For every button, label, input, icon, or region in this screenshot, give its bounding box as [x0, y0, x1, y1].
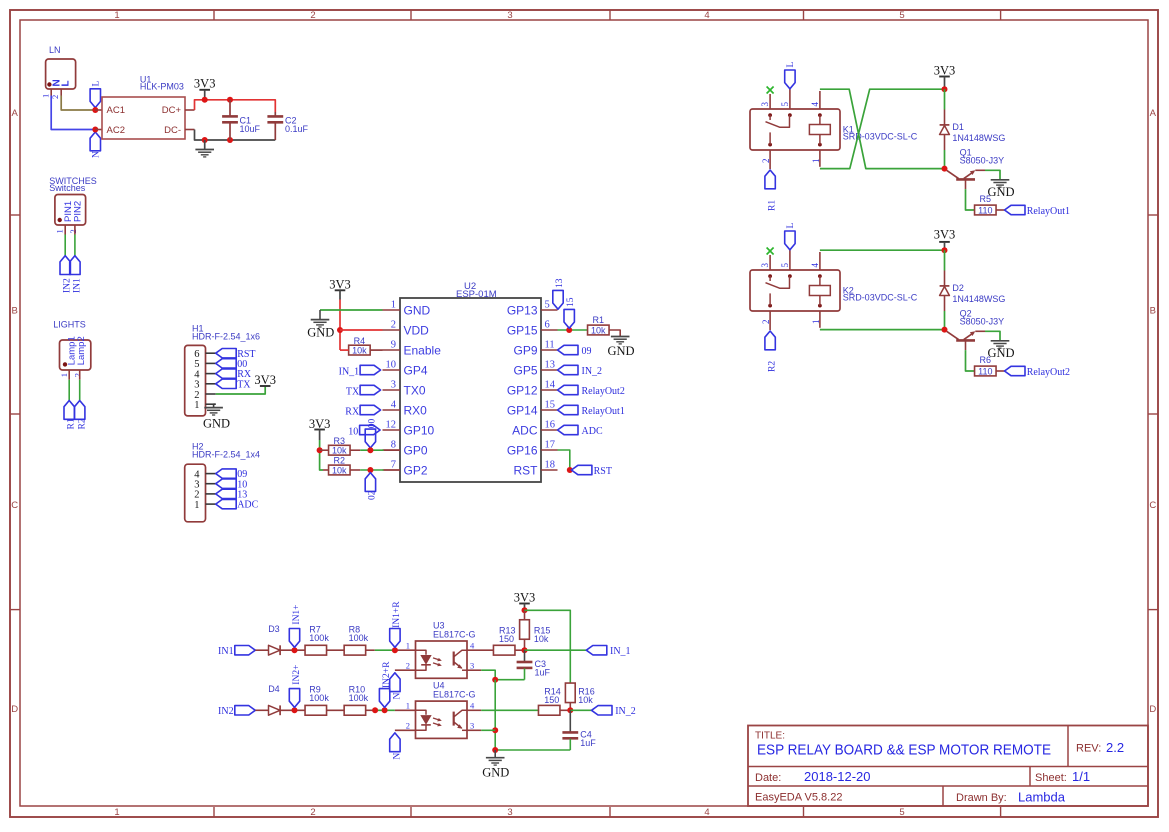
ground GND (Q2) — [987, 341, 1014, 360]
transistor Q2 S8050-J3Y — [947, 308, 1004, 350]
wire U2 pin 6 (GP15) stub — [541, 329, 558, 331]
junction IN2+R b — [382, 707, 388, 713]
wire GP15 — [558, 329, 588, 331]
net flag R2 (K2 pin2) — [765, 331, 778, 372]
svg-text:IN2+R: IN2+R — [382, 661, 392, 688]
resistor R13 150 — [493, 626, 515, 656]
wire H1 pin 2 stub — [206, 393, 216, 395]
wire K2 pin1 stub — [819, 311, 821, 328]
title block — [748, 726, 1148, 807]
svg-text:Switches: Switches — [49, 183, 86, 193]
wire N (blue) LN pin1 to AC2 — [51, 96, 95, 130]
wire U2 pin 12 (GP10) stub — [383, 429, 401, 431]
wire R14 to junction — [560, 709, 570, 711]
wire AC1 stub — [95, 109, 102, 111]
svg-text:12: 12 — [386, 419, 397, 430]
svg-text:GP12: GP12 — [507, 383, 538, 397]
svg-text:1uF: 1uF — [535, 668, 551, 678]
svg-text:TITLE:: TITLE: — [755, 731, 785, 742]
svg-text:GND: GND — [987, 346, 1014, 360]
net flag 10 (H2) — [216, 479, 248, 490]
svg-text:SRD-03VDC-SL-C: SRD-03VDC-SL-C — [843, 293, 918, 303]
wire 3V3 to VDD vertical — [339, 300, 341, 351]
svg-text:GND: GND — [203, 417, 230, 431]
svg-text:RX0: RX0 — [404, 403, 428, 417]
svg-text:3: 3 — [391, 379, 396, 390]
wire U3 pin3 — [467, 669, 481, 671]
svg-text:RST: RST — [514, 463, 539, 477]
net flag TX — [346, 385, 381, 397]
resistor R1 10k — [588, 315, 610, 336]
ground GND H1 — [203, 408, 230, 431]
svg-text:IN1+R: IN1+R — [392, 601, 402, 628]
svg-text:GP14: GP14 — [507, 403, 538, 417]
connector LN — [41, 45, 76, 99]
optocoupler U3 EL817C-G — [406, 621, 476, 679]
wire D4 to R9 — [280, 709, 305, 711]
svg-text:SRD-03VDC-SL-C: SRD-03VDC-SL-C — [843, 132, 918, 142]
svg-text:B: B — [12, 306, 18, 317]
svg-text:3: 3 — [507, 10, 512, 21]
wire R10 to U4 pin1 — [366, 709, 375, 711]
svg-text:GP0: GP0 — [404, 443, 428, 457]
net flag IN2 — [218, 706, 255, 717]
wire switches pin1 — [64, 235, 66, 256]
svg-text:R1: R1 — [593, 315, 605, 325]
diode D4 — [268, 684, 280, 715]
svg-text:15: 15 — [545, 399, 556, 410]
net flag IN_1 (GP4) — [339, 365, 381, 377]
resistor R2 10k — [329, 456, 351, 476]
wire H1 pin 6 stub — [206, 352, 216, 354]
svg-text:6: 6 — [545, 319, 550, 330]
svg-text:10k: 10k — [352, 346, 367, 356]
svg-text:5: 5 — [545, 299, 550, 310]
svg-text:TX0: TX0 — [404, 383, 426, 397]
svg-text:11: 11 — [545, 339, 555, 350]
net flag 10 (GP10) — [348, 425, 380, 437]
junction IN1+R — [392, 647, 398, 653]
regulator U1 HLK-PM03 — [102, 75, 185, 139]
junction GP15 — [566, 327, 572, 333]
wire K1 coil cross a (pin4 to D1) — [820, 89, 945, 168]
svg-text:D: D — [1149, 704, 1156, 715]
net flag 09 (right) — [558, 345, 592, 357]
net flag 00 — [216, 359, 248, 370]
wire K2 pin4 stub — [819, 252, 821, 270]
svg-text:3V3: 3V3 — [934, 228, 956, 242]
svg-text:R5: R5 — [980, 194, 992, 204]
net flag 09 (H2) — [216, 469, 248, 480]
svg-text:L: L — [786, 62, 796, 68]
svg-text:EasyEDA V5.8.22: EasyEDA V5.8.22 — [755, 792, 842, 804]
svg-text:2018-12-20: 2018-12-20 — [804, 769, 871, 784]
wire U2 pin 8 (GP0) stub — [383, 449, 401, 451]
svg-text:3V3: 3V3 — [934, 63, 956, 77]
svg-text:5: 5 — [780, 263, 790, 268]
wire 3V3 over to R16 — [525, 610, 571, 683]
optocoupler U4 EL817C-G — [406, 681, 476, 739]
wire lights pin1 — [68, 380, 70, 401]
resistor R10 100k — [344, 685, 368, 716]
wire R5 to flag — [996, 209, 1005, 211]
svg-text:GND: GND — [404, 303, 431, 317]
wire D2 to collector — [944, 296, 946, 312]
wire H1 pin2 to 3V3 — [216, 387, 266, 395]
connector LIGHTS — [53, 320, 91, 380]
wire 3V3 down to R2 — [320, 440, 323, 470]
svg-text:D1: D1 — [952, 122, 964, 132]
power 3V3 (K1) — [934, 63, 956, 89]
wire R9 to R10 — [327, 709, 345, 711]
power 3V3 H1 — [254, 373, 276, 387]
svg-text:N: N — [392, 693, 402, 700]
wire U2 pin 2 (VDD) stub — [383, 329, 401, 331]
svg-text:LIGHTS: LIGHTS — [53, 320, 86, 330]
wire H1 pin 1 stub — [206, 403, 216, 405]
wire 3V3 to R4 — [340, 349, 349, 351]
wire U2 pin 3 (TX0) stub — [383, 389, 401, 391]
svg-text:2: 2 — [406, 720, 410, 730]
wire U4 pin2 to N flag — [395, 729, 416, 731]
svg-text:RelayOut2: RelayOut2 — [582, 386, 625, 397]
resistor R16 10k — [565, 683, 594, 711]
svg-text:HDR-F-2.54_1x4: HDR-F-2.54_1x4 — [192, 449, 260, 459]
junction AC1 — [92, 107, 98, 113]
svg-text:D4: D4 — [268, 684, 280, 694]
svg-text:A: A — [1150, 108, 1157, 119]
wire lights pin2 — [79, 380, 81, 401]
svg-text:GND: GND — [307, 326, 334, 340]
svg-text:1N4148WSG: 1N4148WSG — [952, 294, 1005, 304]
wire R6 to flag — [996, 370, 1005, 372]
svg-text:RelayOut1: RelayOut1 — [1027, 206, 1070, 217]
svg-text:Lambda: Lambda — [1018, 790, 1066, 805]
svg-text:13: 13 — [555, 278, 565, 288]
svg-text:TX: TX — [346, 387, 360, 398]
svg-text:4: 4 — [391, 399, 397, 410]
resistor R9 100k — [305, 685, 329, 716]
net flag RST (U2) — [571, 465, 612, 477]
svg-text:GND: GND — [987, 185, 1014, 199]
diode D3 — [268, 624, 280, 655]
junction GP2 — [367, 467, 373, 473]
capacitor C4 1uF — [562, 710, 596, 750]
diode D1 1N4148WSG — [940, 122, 1006, 143]
net flag 02 vertical — [365, 473, 377, 500]
relay K2 SRD-03VDC-SL-C — [750, 263, 918, 325]
svg-text:GP2: GP2 — [404, 463, 428, 477]
svg-text:1: 1 — [41, 94, 51, 98]
capacitor C3 1uF — [517, 650, 551, 680]
svg-text:S8050-J3Y: S8050-J3Y — [960, 155, 1005, 165]
junction 3V3 inputs — [522, 607, 528, 613]
wire 3V3 to R3 — [320, 449, 329, 451]
wire U3 pin4 to R13 — [467, 649, 493, 651]
net flag TX — [216, 379, 252, 390]
svg-text:EL817C-G: EL817C-G — [433, 690, 476, 700]
wire IN2 to D4 — [255, 709, 268, 711]
junction 3V3 a — [202, 97, 208, 103]
svg-text:5: 5 — [780, 102, 790, 107]
svg-text:R2: R2 — [334, 456, 346, 466]
net flag 00 vertical — [365, 419, 377, 448]
svg-text:S8050-J3Y: S8050-J3Y — [960, 316, 1005, 326]
svg-text:1: 1 — [391, 299, 396, 310]
wire U3 pin2 to N flag — [395, 669, 416, 671]
svg-text:DC+: DC+ — [162, 105, 182, 116]
wire H2 pin 4 stub — [206, 473, 216, 475]
svg-text:IN_1: IN_1 — [339, 367, 360, 378]
svg-text:RST: RST — [594, 466, 612, 477]
resistor R14 150 — [538, 687, 560, 716]
wire D3 to R7 — [280, 649, 305, 651]
svg-text:4: 4 — [704, 807, 709, 818]
svg-text:15: 15 — [566, 297, 576, 307]
ground GND (inputs) — [482, 750, 509, 779]
net flag RX — [345, 405, 380, 417]
mcu U2 ESP-01M — [400, 281, 541, 482]
junction 3V3 K1 — [942, 86, 948, 92]
svg-text:1: 1 — [114, 807, 119, 818]
svg-text:2.2: 2.2 — [1106, 740, 1124, 755]
svg-text:IN2+: IN2+ — [292, 665, 302, 685]
svg-text:R1: R1 — [768, 200, 778, 211]
svg-text:IN1: IN1 — [73, 278, 83, 293]
svg-text:10: 10 — [386, 359, 397, 370]
header H1 HDR-F-2.54_1x6 — [185, 323, 260, 416]
svg-text:HDR-F-2.54_1x6: HDR-F-2.54_1x6 — [192, 332, 260, 342]
svg-text:100k: 100k — [309, 693, 329, 703]
resistor R8 100k — [344, 625, 368, 656]
svg-text:D3: D3 — [268, 624, 280, 634]
svg-text:B: B — [1150, 306, 1156, 317]
svg-text:1: 1 — [114, 10, 119, 21]
svg-text:HLK-PM03: HLK-PM03 — [140, 82, 184, 92]
wire K1 pin2 stub — [769, 150, 771, 169]
svg-text:AC2: AC2 — [107, 125, 125, 136]
net flag IN_1 (input row) — [586, 646, 630, 658]
junction RST — [567, 467, 573, 473]
svg-text:N: N — [392, 753, 402, 760]
wire GND pin1 — [320, 309, 383, 311]
svg-text:GP15: GP15 — [507, 323, 538, 337]
svg-text:L: L — [786, 223, 796, 229]
wire H2 pin 1 stub — [206, 503, 216, 505]
svg-text:2: 2 — [310, 807, 315, 818]
junction 3V3 K2 — [942, 247, 948, 253]
svg-text:ADC: ADC — [582, 426, 603, 437]
wire 3V3 to R2 stub — [323, 469, 329, 471]
wire H2 pin 3 stub — [206, 483, 216, 485]
svg-text:LN: LN — [49, 45, 61, 55]
junction 3V3 b — [227, 97, 233, 103]
svg-text:00: 00 — [368, 419, 378, 429]
svg-text:13: 13 — [545, 359, 556, 370]
svg-text:DC-: DC- — [164, 125, 181, 136]
wire 3V3 to D1 — [944, 89, 946, 109]
svg-text:110: 110 — [978, 205, 992, 215]
resistor R6 110 — [975, 355, 997, 376]
net flag ADC (right) — [558, 425, 603, 437]
net flag 13 vertical (GP13) — [553, 278, 565, 309]
junction IN1+ — [292, 647, 298, 653]
junction collector Q1 — [942, 166, 948, 172]
wire R3 to GP0 — [350, 449, 360, 451]
wire K2 pin3 stub — [769, 255, 771, 270]
svg-text:150: 150 — [499, 634, 514, 644]
svg-text:17: 17 — [545, 439, 556, 450]
junction U4 pin3 — [492, 727, 498, 733]
net flag 13 (H2) — [216, 489, 248, 500]
svg-text:IN2: IN2 — [218, 706, 234, 717]
resistor R15 10k — [520, 610, 551, 650]
net flag 15 vertical — [564, 297, 576, 328]
svg-text:Date:: Date: — [755, 772, 781, 784]
wire C3 to gnd rail — [495, 679, 524, 681]
svg-text:150: 150 — [544, 695, 559, 705]
wire K1 pin3 stub — [769, 94, 771, 109]
junction R13 R15 C3 — [522, 647, 528, 653]
wire K1 pin4 stub — [819, 91, 821, 109]
svg-text:A: A — [12, 108, 19, 119]
svg-text:8: 8 — [391, 439, 396, 450]
wire U2 pin 13 (GP5) stub — [541, 369, 558, 371]
svg-text:GP9: GP9 — [513, 343, 537, 357]
wire gnd rail vertical — [494, 680, 496, 750]
svg-text:IN2: IN2 — [62, 278, 72, 293]
svg-text:2: 2 — [391, 319, 396, 330]
net flag N (U3) — [390, 673, 403, 700]
net flag L — [90, 81, 101, 108]
wire emitter Q1 to gnd — [975, 169, 985, 171]
wire emitter Q2 to gnd — [975, 330, 985, 332]
net flag R1 (lights) — [64, 401, 77, 430]
svg-text:ADC: ADC — [512, 423, 538, 437]
svg-text:C: C — [1149, 500, 1156, 511]
wire H1 pin 3 stub — [206, 383, 216, 385]
net flag IN1 — [218, 646, 255, 657]
svg-text:PIN2: PIN2 — [73, 201, 84, 222]
net flag N (U4) — [390, 733, 403, 760]
no-connect X K2 pin3 — [767, 248, 774, 255]
svg-text:1: 1 — [406, 700, 410, 710]
svg-text:1uF: 1uF — [580, 738, 596, 748]
wire R2 to GP2 — [350, 469, 360, 471]
svg-text:3V3: 3V3 — [254, 373, 276, 387]
svg-text:1: 1 — [59, 373, 69, 377]
svg-text:VDD: VDD — [404, 323, 430, 337]
svg-text:GND: GND — [607, 344, 634, 358]
power 3V3 (inputs) — [514, 591, 536, 611]
svg-text:C: C — [11, 500, 18, 511]
relay K1 SRD-03VDC-SL-C — [750, 102, 918, 164]
capacitor C1 10uF — [222, 100, 260, 140]
svg-text:02: 02 — [368, 490, 378, 500]
net flag RelayOut1 — [1005, 205, 1071, 217]
svg-text:N: N — [91, 151, 101, 158]
net flag IN2 — [60, 256, 72, 293]
wire C4 to gnd rail — [495, 749, 570, 751]
no-connect X K1 pin3 — [767, 87, 774, 94]
net flag RX — [216, 369, 252, 380]
svg-text:GP5: GP5 — [513, 363, 537, 377]
ground GND (Q1) — [987, 180, 1014, 199]
wire R13 to junction — [515, 649, 525, 651]
junction GND a — [202, 137, 208, 143]
net flag N — [90, 132, 101, 158]
svg-text:3: 3 — [470, 660, 474, 670]
svg-text:4: 4 — [810, 102, 820, 107]
svg-text:4: 4 — [704, 10, 709, 21]
svg-text:110: 110 — [978, 366, 992, 376]
svg-text:IN_2: IN_2 — [615, 706, 636, 717]
capacitor C2 0.1uF — [267, 112, 308, 140]
svg-text:D2: D2 — [952, 283, 964, 293]
wire U2 pin 10 (GP4) stub — [383, 369, 401, 371]
wire R7 to R8 — [327, 649, 345, 651]
net flag R2 (lights) — [75, 401, 88, 430]
net flag IN1 — [70, 256, 83, 293]
svg-text:10k: 10k — [332, 446, 347, 456]
wire K1 coil cross b (pin1 to 3V3) — [820, 89, 945, 168]
svg-text:Sheet:: Sheet: — [1035, 772, 1067, 784]
power 3V3 (U2 VDD) — [329, 278, 351, 300]
svg-text:9: 9 — [391, 339, 396, 350]
diode D2 1N4148WSG — [940, 283, 1006, 304]
svg-text:5: 5 — [899, 807, 904, 818]
svg-text:2: 2 — [310, 10, 315, 21]
svg-text:10uF: 10uF — [240, 124, 261, 134]
net flag R1 (K1 pin2) — [765, 170, 778, 211]
svg-text:10k: 10k — [591, 325, 606, 335]
wire U2 pin 17 (GP16) stub — [541, 449, 558, 451]
svg-text:09: 09 — [582, 346, 592, 357]
wire U2 pin 15 (GP14) stub — [541, 409, 558, 411]
svg-text:2: 2 — [68, 229, 78, 233]
wire base Q2 to R6 — [966, 350, 975, 371]
svg-text:1: 1 — [406, 640, 410, 650]
wire U2 pin 18 (RST) stub — [541, 469, 558, 471]
wire U4 pin3 — [467, 729, 481, 731]
svg-text:3: 3 — [760, 102, 770, 107]
svg-text:RelayOut1: RelayOut1 — [582, 406, 625, 417]
resistor R5 110 — [975, 194, 997, 215]
svg-text:RelayOut2: RelayOut2 — [1027, 367, 1070, 378]
wire R8 to U3 pin1 — [366, 649, 375, 651]
svg-text:100k: 100k — [349, 693, 369, 703]
svg-text:IN_1: IN_1 — [610, 646, 631, 657]
net flag RST — [216, 349, 256, 360]
svg-text:IN1: IN1 — [218, 646, 234, 657]
svg-text:L: L — [60, 80, 71, 86]
svg-text:2: 2 — [73, 373, 83, 377]
wire U4 pin4 to R14 — [467, 709, 481, 711]
svg-text:3: 3 — [470, 720, 474, 730]
svg-text:3: 3 — [507, 807, 512, 818]
junction VDD — [337, 327, 343, 333]
power 3V3 (K2) — [934, 228, 956, 251]
wire K1 pin1 stub — [819, 150, 821, 167]
net flag RelayOut2 (right) — [558, 385, 625, 397]
svg-text:10: 10 — [348, 426, 358, 437]
wire base Q1 to R5 — [966, 189, 975, 210]
wire VDD horizontal — [340, 329, 383, 331]
net flag L (K2) — [785, 223, 797, 250]
junction R3 feed — [317, 447, 323, 453]
svg-text:Drawn By:: Drawn By: — [956, 792, 1007, 804]
wire H1 pin 5 stub — [206, 362, 216, 364]
